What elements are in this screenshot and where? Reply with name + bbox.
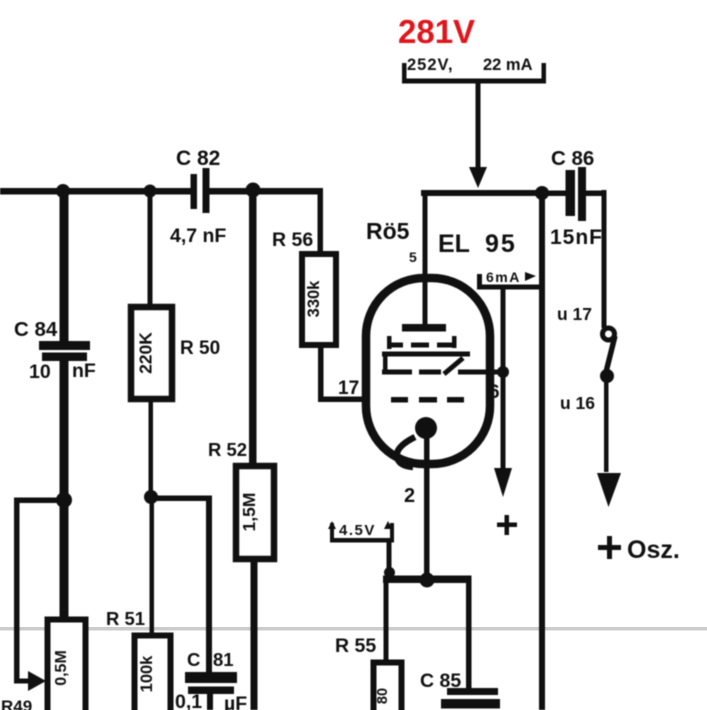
tube Rö5 EL 95 envelope [366,278,490,464]
svg-text:81: 81 [213,649,234,670]
node: pin2/rail [420,573,435,588]
svg-text:17: 17 [338,378,359,399]
svg-text:C 84: C 84 [14,318,58,341]
svg-text:C 85: C 85 [420,670,461,692]
capacitor C82 (series, 4.7nF) [191,168,210,213]
resistor R56 (330k) [318,188,324,399]
cathode network rail [383,576,472,584]
wire to potentiometer wiper [14,498,64,684]
node: pin6/6mA junction [497,366,509,378]
node: C84/pot junction [56,492,72,508]
capacitor C84 (10nF to ground) [39,191,90,500]
svg-text:1,5M: 1,5M [239,493,259,532]
6mA arrow down [494,289,512,497]
svg-text:15nF: 15nF [550,226,603,249]
plus mark Osz [598,536,621,559]
cathode dot [415,417,437,439]
node: R50/R51/C81 junction [144,490,158,504]
wire: grid pin 17 [318,397,370,403]
supply arrow into anode wire [469,83,487,188]
grid g1 (dashed row, pin 17) [391,397,464,403]
wire: main grid bus (left horizontal) [0,188,191,195]
wire: pin 6 to measure line [458,370,506,375]
svg-text:330k: 330k [305,280,323,318]
grid solid row [382,352,470,375]
svg-text:EL: EL [438,230,470,258]
svg-text:C 86: C 86 [551,147,594,170]
resistor R51 (100k) [150,497,155,633]
resistor R50 (220K) [148,191,153,304]
svg-text:4,7 nF: 4,7 nF [170,225,226,247]
svg-text:2: 2 [404,485,415,507]
svg-text:4.5V: 4.5V [339,522,376,539]
switch contact (open circle) [603,328,615,340]
node: C82/R52 junction [246,183,261,198]
grid g2 (dashed row with end hooks) [387,336,457,349]
svg-text:252V,: 252V, [407,56,454,74]
6mA measure bracket [477,274,541,290]
resistor R52 (1.5M) [249,188,257,463]
wire: right bus down [539,190,545,710]
grid g2 row to pin 6 [382,370,441,375]
svg-text:nF: nF [72,360,96,382]
fold line (faint scan artifact) [0,627,707,631]
svg-text:0,1: 0,1 [175,691,202,710]
plus mark (6mA destination) [497,515,517,535]
svg-text:C 82: C 82 [176,147,220,170]
resistor R55 [384,580,389,660]
node: anode wire / right bus junction [535,186,549,200]
capacitor C85 [466,580,472,688]
node: C84 tap [56,184,70,198]
switch lever [606,336,615,372]
svg-text:u 16: u 16 [560,393,595,413]
svg-text:0,5M: 0,5M [53,650,70,686]
wire: anode top [421,190,542,196]
svg-text:Osz.: Osz. [627,536,680,564]
4.5V bracket [330,523,394,575]
wiper arrow into 0.5M pot [28,671,46,691]
node: lever pivot [600,369,614,383]
svg-text:80: 80 [375,688,391,704]
svg-text:R 56: R 56 [272,229,313,251]
svg-text:R 51: R 51 [106,608,145,629]
svg-text:100k: 100k [138,655,156,693]
svg-text:R 52: R 52 [208,439,247,460]
svg-text:95: 95 [485,230,517,258]
wire: switch feed [602,190,607,328]
svg-text:220K: 220K [136,332,156,374]
supply bracket 252V 22mA [402,63,546,84]
capacitor C86 (15nF) [545,167,606,221]
svg-text:22 mA: 22 mA [483,56,533,74]
svg-text:R 55: R 55 [335,635,376,657]
svg-text:Rö5: Rö5 [366,218,410,244]
svg-text:6: 6 [489,382,500,403]
anode plate [402,324,446,332]
svg-text:C: C [187,649,200,670]
pin 5 lead [423,193,428,326]
svg-text:6mA: 6mA [486,269,521,285]
svg-text:10: 10 [29,361,51,383]
node: R50 tap [144,185,157,198]
wire: junction to pot [60,500,69,622]
svg-text:281V: 281V [398,13,475,50]
svg-text:R 50: R 50 [180,338,220,359]
cathode hook [397,437,415,467]
wire to C81 [151,496,212,673]
pin 2 lead [424,437,430,583]
capacitor C81 (0.1uF) [185,672,237,710]
node: 4.5V tap [384,567,395,578]
svg-text:5: 5 [409,249,417,265]
svg-text:R49: R49 [1,697,32,710]
arrow to Osz [597,374,621,507]
svg-text:u 17: u 17 [557,304,592,324]
svg-text:µF: µF [224,693,247,710]
potentiometer 0.5M [48,620,86,710]
